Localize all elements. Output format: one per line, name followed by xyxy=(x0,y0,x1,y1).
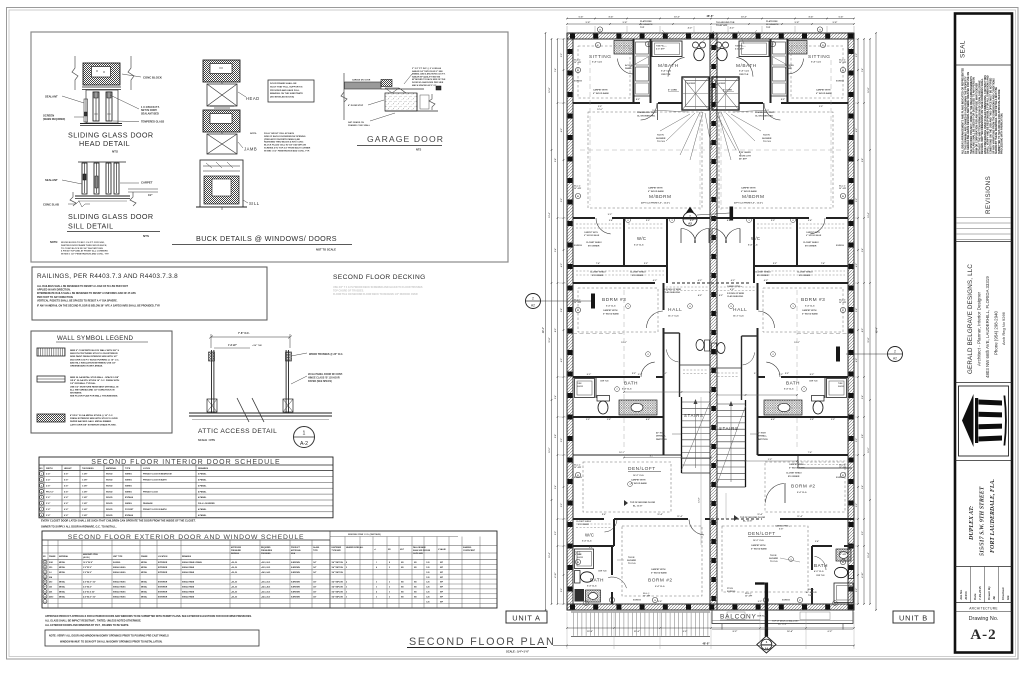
svg-text:TO CLG: TO CLG xyxy=(628,563,636,565)
svg-text:16'-8": 16'-8" xyxy=(868,87,870,92)
svg-text:7'-4": 7'-4" xyxy=(861,68,864,72)
svg-text:5'-2": 5'-2" xyxy=(785,373,789,375)
lav counter left unit mid xyxy=(619,400,657,415)
svg-text:CLOSET SHELV: CLOSET SHELV xyxy=(755,272,771,274)
cased opening dash left xyxy=(642,518,688,520)
svg-text:PRIVACY LOCK IN BATH: PRIVACY LOCK IN BATH xyxy=(143,508,167,511)
svg-text:4'-2": 4'-2" xyxy=(560,263,563,267)
svg-text:PAPER BACKED GALV. METAL RIBBE: PAPER BACKED GALV. METAL RIBBED xyxy=(70,420,112,423)
svg-text:SWING: SWING xyxy=(125,491,132,493)
bath walls left unit xyxy=(573,376,640,378)
svg-text:1/4": 1/4" xyxy=(313,591,316,594)
svg-text:3'-0": 3'-0" xyxy=(598,106,602,108)
svg-text:BY OWNER: BY OWNER xyxy=(805,245,817,247)
svg-text:W/C: W/C xyxy=(585,533,594,538)
svg-text:SECOND FLOOR INTERIOR DOOR SCH: SECOND FLOOR INTERIOR DOOR SCHEDULE xyxy=(91,459,280,466)
sliding glass door head detail xyxy=(72,56,78,90)
svg-text:260: 260 xyxy=(49,587,52,589)
svg-text:SINGLE HUNG: SINGLE HUNG xyxy=(113,592,126,594)
svg-text:WOOD: WOOD xyxy=(106,515,113,517)
svg-text:8'-2": 8'-2" xyxy=(587,374,591,376)
svg-text:SCREEN: SCREEN xyxy=(43,114,54,118)
carpet outline bdrm2 left xyxy=(622,526,702,596)
bdrm2 wall right unit xyxy=(758,454,849,456)
svg-text:SITTING: SITTING xyxy=(589,54,611,60)
svg-text:3'-0": 3'-0" xyxy=(819,106,823,108)
svg-text:SHOW: SHOW xyxy=(577,557,583,559)
svg-text:REQUIRED: REQUIRED xyxy=(261,547,271,549)
wall symbol legend box xyxy=(31,331,172,433)
svg-text:1/2" DRYWALL TYPICAL.: 1/2" DRYWALL TYPICAL. xyxy=(70,382,96,385)
svg-text:5'-4": 5'-4" xyxy=(554,248,557,252)
svg-text:6" WOOD BASE: 6" WOOD BASE xyxy=(806,234,822,237)
revision rule lines xyxy=(957,217,1011,219)
svg-text:8'-2": 8'-2" xyxy=(636,99,640,101)
buck detail head section xyxy=(203,60,240,82)
carpet outline den/loft left xyxy=(583,462,671,512)
svg-text:M/BDRM: M/BDRM xyxy=(649,194,671,200)
svg-text:1/4" TAPCON: 1/4" TAPCON xyxy=(332,595,344,598)
svg-text:PRIVACY LOCK: PRIVACY LOCK xyxy=(143,490,158,493)
svg-text:4'-8" AFF: 4'-8" AFF xyxy=(656,48,665,51)
svg-text:4 PANEL: 4 PANEL xyxy=(198,514,207,517)
svg-text:SHOWERS.: SHOWERS. xyxy=(70,393,82,395)
svg-text:COEFFICIENT: COEFFICIENT xyxy=(463,550,476,552)
closet shelf dashes xyxy=(576,223,622,225)
svg-text:12'-6": 12'-6" xyxy=(597,109,603,111)
svg-text:SHOWER: SHOWER xyxy=(687,83,696,85)
svg-text:FASTENED THRU BUCKS 4 INTO CON: FASTENED THRU BUCKS 4 INTO CONC xyxy=(264,141,304,144)
svg-text:1'-8 1/2": 1'-8 1/2" xyxy=(228,345,237,347)
svg-text:+50,-50: +50,-50 xyxy=(231,592,237,594)
svg-text:1/4" TAPCON: 1/4" TAPCON xyxy=(332,591,344,594)
svg-text:6'-8": 6'-8" xyxy=(64,491,68,493)
svg-text:6" WOOD BASE: 6" WOOD BASE xyxy=(802,312,818,315)
svg-text:W/ MIN 1 1/2" PENETRATION AND: W/ MIN 1 1/2" PENETRATION AND CONC, TYP. xyxy=(264,149,310,152)
svg-text:16'-1" CLG: 16'-1" CLG xyxy=(668,316,679,318)
svg-text:2'-8": 2'-8" xyxy=(607,419,611,421)
tub bottom left xyxy=(575,549,594,569)
svg-text:CER TLE: CER TLE xyxy=(816,575,825,577)
svg-text:3'-2": 3'-2" xyxy=(856,438,858,442)
svg-text:CLOSET SHELV: CLOSET SHELV xyxy=(786,473,802,475)
svg-text:EGRESS: EGRESS xyxy=(574,81,583,83)
svg-text:TUB FILL +: TUB FILL + xyxy=(656,46,667,48)
svg-text:49'-4": 49'-4" xyxy=(876,327,879,333)
svg-text:U VALUE: U VALUE xyxy=(438,548,447,551)
svg-text:REMARKS: REMARKS xyxy=(182,555,192,558)
svg-text:EL. 11'-8": EL. 11'-8" xyxy=(633,506,642,508)
svg-text:9'-4" CLG: 9'-4" CLG xyxy=(811,61,821,64)
svg-text:METAL: METAL xyxy=(59,591,66,594)
svg-text:3'-0": 3'-0" xyxy=(831,419,835,421)
carpet outline m/bdrm right xyxy=(719,112,833,208)
svg-text:NOTE:: NOTE: xyxy=(250,133,257,135)
svg-text:(A.O.B.): (A.O.B.) xyxy=(83,556,90,559)
svg-text:Date: Date xyxy=(973,593,977,600)
svg-text:GL SHOWER DRS.: GL SHOWER DRS. xyxy=(755,115,774,117)
svg-text:36" AFF: 36" AFF xyxy=(839,553,847,556)
svg-text:6: 6 xyxy=(792,220,793,222)
svg-text:SEALANT BED: SEALANT BED xyxy=(141,112,159,115)
svg-text:16'-2" CLG: 16'-2" CLG xyxy=(753,540,764,542)
svg-text:CLAD SHELVING: CLAD SHELVING xyxy=(664,291,681,294)
svg-text:S-BROWN: S-BROWN xyxy=(291,582,300,584)
svg-text:SEAL: SEAL xyxy=(960,40,967,58)
bottom bath walls right xyxy=(811,546,813,570)
svg-text:10'-0": 10'-0" xyxy=(674,17,680,19)
svg-text:9'X9' SHWR: 9'X9' SHWR xyxy=(739,152,751,154)
svg-text:5'-6": 5'-6" xyxy=(602,514,606,516)
svg-text:SECOND FLOOR EXTERIOR DOOR AND: SECOND FLOOR EXTERIOR DOOR AND WINDOW SC… xyxy=(68,534,305,541)
svg-text:S-BROWN: S-BROWN xyxy=(291,587,300,589)
svg-text:INTERMEDIATE RAILS SHALL BE DE: INTERMEDIATE RAILS SHALL BE DESIGNED TO … xyxy=(37,292,136,295)
svg-text:4 PANEL: 4 PANEL xyxy=(198,479,207,482)
svg-text:ATTACHED TO EACH SIDE OF THE: ATTACHED TO EACH SIDE OF THE xyxy=(412,78,446,81)
svg-text:5'-4": 5'-4" xyxy=(861,485,864,489)
svg-text:CARPET WITH: CARPET WITH xyxy=(802,309,817,312)
svg-text:2: 2 xyxy=(346,567,347,569)
svg-text:11'-4": 11'-4" xyxy=(677,515,683,518)
svg-text:HEAD DETAIL: HEAD DETAIL xyxy=(79,139,130,148)
svg-text:(NO BEVELED BUCKS): (NO BEVELED BUCKS) xyxy=(270,97,294,99)
unit a label xyxy=(506,611,547,623)
svg-text:6" WOOD BASE: 6" WOOD BASE xyxy=(593,92,609,95)
svg-text:2'-2": 2'-2" xyxy=(862,531,864,535)
svg-text:3: 3 xyxy=(376,596,377,598)
svg-text:WALL SYMBOL LEGEND: WALL SYMBOL LEGEND xyxy=(57,335,133,342)
svg-text:NOT TO SCALE: NOT TO SCALE xyxy=(316,248,336,252)
svg-text:THICKNESS: THICKNESS xyxy=(82,468,94,470)
svg-text:4'-2": 4'-2" xyxy=(730,27,735,30)
svg-text:A-2: A-2 xyxy=(300,441,308,447)
svg-text:ALL RAILINGS SHALL BE DESIGNED: ALL RAILINGS SHALL BE DESIGNED TO RESIST… xyxy=(37,285,128,288)
svg-text:WOOD: WOOD xyxy=(106,503,113,505)
svg-text:5'-2": 5'-2" xyxy=(773,263,777,265)
svg-text:5'-0": 5'-0" xyxy=(646,220,650,222)
svg-text:USE 1/2" MOISTURE RESISTANT DR: USE 1/2" MOISTURE RESISTANT DRYWALL IN xyxy=(70,385,119,388)
svg-text:(WHEN REQUIRED): (WHEN REQUIRED) xyxy=(43,118,65,121)
svg-text:ALL WET AREAS AND 1/2" DURA RO: ALL WET AREAS AND 1/2" DURA ROCK IN xyxy=(70,388,115,391)
svg-text:EXTERIOR: EXTERIOR xyxy=(158,587,168,589)
svg-text:BY OWNER: BY OWNER xyxy=(592,275,604,277)
svg-text:NEW 8" CONCRETE BLOCK WALL WIT: NEW 8" CONCRETE BLOCK WALL WITH 5/8" S xyxy=(70,349,119,352)
svg-text:1/4" TAPCON: 1/4" TAPCON xyxy=(332,571,344,574)
window tags top/bottom walls xyxy=(597,27,602,32)
svg-text:REVISIONS: REVISIONS xyxy=(985,176,992,214)
svg-text:HALL: HALL xyxy=(668,307,682,313)
second floor interior door schedule table xyxy=(39,457,333,518)
svg-text:40" ABOVE: 40" ABOVE xyxy=(806,591,817,594)
svg-text:PROVIDED: PROVIDED xyxy=(261,553,271,555)
svg-text:DOOR W/ 4 ANCHORS PER SIDE: DOOR W/ 4 ANCHORS PER SIDE xyxy=(412,81,444,84)
garage door boxed note xyxy=(268,80,314,102)
svg-text:METAL: METAL xyxy=(59,586,66,589)
svg-text:PRESSURE: PRESSURE xyxy=(231,550,242,552)
svg-text:SINGLE HUNG: SINGLE HUNG xyxy=(113,596,126,598)
svg-text:2'-8": 2'-8" xyxy=(810,419,814,421)
svg-text:Drawing No.: Drawing No. xyxy=(969,616,999,622)
buck detail jamb section xyxy=(203,110,240,132)
svg-text:9'-8": 9'-8" xyxy=(555,158,557,162)
svg-text:16'-1": 16'-1" xyxy=(619,452,625,454)
stair zone vertical dim chains xyxy=(700,397,702,545)
svg-text:STAIRS: STAIRS xyxy=(719,426,739,431)
svg-text:1 3/8": 1 3/8" xyxy=(82,509,87,511)
svg-text:SIDE PAINT FINISH INTERIOR SID: SIDE PAINT FINISH INTERIOR SIDE WITH 1/2… xyxy=(70,355,118,358)
svg-text:1/4": 1/4" xyxy=(313,581,316,584)
svg-text:8: 8 xyxy=(689,306,690,308)
svg-text:10'-0": 10'-0" xyxy=(549,447,551,452)
svg-text:9'-4" CLG: 9'-4" CLG xyxy=(805,305,815,308)
svg-text:TO CONC BLOCK W/ 1/4" DIA TAPC: TO CONC BLOCK W/ 1/4" DIA TAPCONS xyxy=(61,247,103,250)
svg-text:WINDOW MANUF. TO SIGN-OFF ON A: WINDOW MANUF. TO SIGN-OFF ON ALL MASONRY… xyxy=(60,641,163,644)
plan center party wall xyxy=(710,33,717,610)
svg-text:M/BATH: M/BATH xyxy=(658,63,679,69)
svg-text:8'-2": 8'-2" xyxy=(683,631,688,633)
wall columns center xyxy=(711,45,716,50)
svg-text:SPACING ZONE 1 V.O. (SW/7SHW): SPACING ZONE 1 V.O. (SW/7SHW) xyxy=(348,533,381,536)
svg-text:PR 2'-0": PR 2'-0" xyxy=(46,491,54,493)
svg-text:3: 3 xyxy=(376,582,377,584)
svg-text:UNIT B: UNIT B xyxy=(899,614,928,623)
svg-text:HEAD: HEAD xyxy=(246,96,260,101)
svg-text:9'-4" CLG: 9'-4" CLG xyxy=(606,305,616,308)
svg-text:5'-2": 5'-2" xyxy=(644,263,648,265)
svg-text:JAMB: JAMB xyxy=(244,147,257,152)
svg-text:LOCATION: LOCATION xyxy=(158,555,168,558)
svg-text:1 3/8": 1 3/8" xyxy=(82,515,87,517)
svg-text:W/ MIN 1 1/2" PENETRATION AND: W/ MIN 1 1/2" PENETRATION AND CONC, TYP. xyxy=(61,253,109,256)
hall wall right unit xyxy=(757,283,759,310)
svg-text:5 ROWS OF WIRE: 5 ROWS OF WIRE xyxy=(727,293,745,295)
svg-text:SINGLE PANE: SINGLE PANE xyxy=(182,595,195,598)
svg-text:METAL: METAL xyxy=(59,561,66,564)
svg-text:PRIVACY LOCK IN BATH: PRIVACY LOCK IN BATH xyxy=(143,479,167,482)
svg-text:PARTITION: PARTITION xyxy=(757,438,768,441)
svg-text:5'-8": 5'-8" xyxy=(586,22,591,24)
svg-text:8'-0": 8'-0" xyxy=(555,328,557,332)
svg-text:3'-2": 3'-2" xyxy=(856,53,858,57)
svg-text:3'-2": 3'-2" xyxy=(779,374,783,376)
svg-text:3: 3 xyxy=(389,592,390,594)
svg-text:EL. 11'-4": EL. 11'-4" xyxy=(778,623,787,626)
svg-text:CARPET WITH: CARPET WITH xyxy=(806,231,820,234)
svg-text:BY OWNER: BY OWNER xyxy=(757,275,769,277)
lav bottom right xyxy=(836,549,851,561)
svg-text:OR 6" 20 GA MTL STUDS 16" O.C.: OR 6" 20 GA MTL STUDS 16" O.C. FINISH WI… xyxy=(70,379,120,382)
svg-text:CER TLE: CER TLE xyxy=(661,74,671,76)
svg-text:31'-6": 31'-6" xyxy=(634,631,640,633)
svg-text:4'-6"X3'-6 1/2": 4'-6"X3'-6 1/2" xyxy=(83,591,95,594)
svg-text:BYPASS: BYPASS xyxy=(125,514,134,517)
svg-text:BY OWNER: BY OWNER xyxy=(632,275,644,277)
svg-text:TO 48" AFF: TO 48" AFF xyxy=(716,24,728,27)
svg-text:RATED (SEE SPECS): RATED (SEE SPECS) xyxy=(308,380,332,383)
svg-text:METAL: METAL xyxy=(59,595,66,598)
svg-text:METAL: METAL xyxy=(141,581,148,584)
svg-text:ACCESS: ACCESS xyxy=(625,64,634,67)
svg-text:8'-4": 8'-4" xyxy=(609,16,614,19)
toilet left unit mid xyxy=(597,396,610,402)
svg-text:EVERY CLOSET DOOR LATCH SHALL: EVERY CLOSET DOOR LATCH SHALL BE SUCH TH… xyxy=(41,520,196,523)
svg-text:10'-4": 10'-4" xyxy=(548,552,551,557)
bath walls right unit xyxy=(781,376,848,378)
svg-text:3'-1": 3'-1" xyxy=(754,373,758,375)
svg-text:DEN/LOFT: DEN/LOFT xyxy=(748,531,776,537)
tub bottom right xyxy=(834,583,853,603)
svg-text:BYPASS: BYPASS xyxy=(125,496,134,499)
svg-text:8: 8 xyxy=(730,306,731,308)
svg-text:1.20: 1.20 xyxy=(426,567,430,569)
closet cells right unit xyxy=(773,42,786,54)
svg-text:CARPET: CARPET xyxy=(141,181,153,185)
sitting door arc right xyxy=(788,59,803,74)
toilet right unit mid xyxy=(812,396,825,402)
svg-text:2X0: 2X0 xyxy=(49,567,52,569)
svg-text:TYPE: TYPE xyxy=(313,550,318,552)
svg-text:SINGLE PANE: SINGLE PANE xyxy=(182,571,195,574)
svg-text:4'-6"X4'-0" 1/2": 4'-6"X4'-0" 1/2" xyxy=(83,595,96,598)
svg-text:4 PANEL: 4 PANEL xyxy=(198,496,207,499)
left dimension chains xyxy=(545,33,547,610)
svg-text:5'-4": 5'-4" xyxy=(861,248,864,252)
svg-text:15'-8": 15'-8" xyxy=(587,631,593,633)
attic detail callout circle 1/A-2 xyxy=(294,427,315,448)
svg-text:2: 2 xyxy=(894,350,896,354)
svg-text:5'-8": 5'-8" xyxy=(623,22,628,24)
svg-text:4'-6": 4'-6" xyxy=(771,418,775,421)
plan exterior wall left xyxy=(567,33,573,610)
svg-text:CER TLE: CER TLE xyxy=(600,381,609,383)
svg-text:CARPET WITH: CARPET WITH xyxy=(631,479,646,482)
wall sitting-bath divider right unit xyxy=(787,39,789,103)
mbath door arcs at center xyxy=(668,57,685,76)
svg-text:36" AFF: 36" AFF xyxy=(643,595,651,598)
svg-text:TO CLG: TO CLG xyxy=(763,141,771,143)
svg-text:4'-2": 4'-2" xyxy=(764,279,768,282)
svg-text:TLE IN: TLE IN xyxy=(763,135,770,137)
svg-text:EXTERIOR: EXTERIOR xyxy=(158,572,168,574)
svg-text:WOOD: WOOD xyxy=(106,480,113,482)
svg-text:DRYWALL: DRYWALL xyxy=(757,435,768,438)
svg-text:EGRESS: EGRESS xyxy=(574,245,583,247)
svg-text:1/4" TAPCON: 1/4" TAPCON xyxy=(332,561,344,564)
svg-text:3'-4": 3'-4" xyxy=(815,540,819,543)
svg-text:4'-2": 4'-2" xyxy=(698,294,702,297)
svg-text:6" WOOD BASE: 6" WOOD BASE xyxy=(631,482,647,485)
svg-text:9'-4" CLG: 9'-4" CLG xyxy=(592,61,602,64)
svg-text:WIDTH: WIDTH xyxy=(46,468,53,470)
svg-text:7'-4": 7'-4" xyxy=(808,451,812,454)
svg-text:HEIGHT: HEIGHT xyxy=(64,468,72,470)
carpet outline m/bdrm left xyxy=(588,112,702,208)
svg-text:CARPET WITH: CARPET WITH xyxy=(789,463,804,466)
svg-text:3'-2": 3'-2" xyxy=(589,547,593,549)
svg-text:SEALANT: SEALANT xyxy=(45,95,58,99)
tub left unit xyxy=(652,41,682,57)
svg-text:4 PANEL: 4 PANEL xyxy=(198,473,207,476)
svg-text:36" AFF: 36" AFF xyxy=(574,187,582,190)
svg-text:2'-8": 2'-8" xyxy=(862,434,864,438)
svg-text:6" WOOD BASE: 6" WOOD BASE xyxy=(789,466,805,469)
shower right unit xyxy=(712,77,739,110)
svg-text:4'-2": 4'-2" xyxy=(688,27,693,30)
svg-text:5'-8": 5'-8" xyxy=(795,22,800,24)
svg-text:+52.0,-50.5: +52.0,-50.5 xyxy=(261,592,270,594)
svg-text:CASED OPNG +: CASED OPNG + xyxy=(775,525,791,528)
svg-text:NAILER SP QUALITY MAY BE: NAILER SP QUALITY MAY BE xyxy=(412,75,441,78)
svg-text:7: 7 xyxy=(803,389,804,391)
svg-text:+52.5,-52.5: +52.5,-52.5 xyxy=(261,567,270,569)
svg-text:FLOOR TILE ON SECOND FLOOR DEC: FLOOR TILE ON SECOND FLOOR DECK TO RECEI… xyxy=(333,293,418,296)
svg-text:48'-8": 48'-8" xyxy=(706,14,714,18)
svg-text:EGRESS: EGRESS xyxy=(574,477,583,479)
svg-text:7'-8" O.C.: 7'-8" O.C. xyxy=(238,331,250,335)
svg-text:SHOWER: SHOWER xyxy=(762,138,772,140)
svg-text:2'-8": 2'-8" xyxy=(555,434,557,438)
carpet outline bdrm3 right xyxy=(763,288,843,332)
svg-text:1.20: 1.20 xyxy=(426,562,430,564)
svg-text:(PRECAST/CONCRETE PANELS) BE: (PRECAST/CONCRETE PANELS) BE xyxy=(264,138,300,141)
svg-text:Drawn By: Drawn By xyxy=(987,586,991,600)
svg-text:8'-7": 8'-7" xyxy=(650,455,654,457)
svg-text:RAILINGS, PER R4403.7.3 AND R4: RAILINGS, PER R4403.7.3 AND R4403.7.3.8 xyxy=(37,273,178,280)
svg-text:+54.5,-54.5: +54.5,-54.5 xyxy=(261,571,270,574)
svg-text:EMBED, AND 4 ANCHORS 4 2X P.T.: EMBED, AND 4 ANCHORS 4 2X P.T. xyxy=(412,73,446,76)
svg-text:FINISH EXTERIOR SIDE WITH STUC: FINISH EXTERIOR SIDE WITH STUCCO OVER xyxy=(70,418,118,420)
svg-text:4'-2": 4'-2" xyxy=(719,294,723,297)
svg-text:515/517 S.W. 9TH STREET: 515/517 S.W. 9TH STREET xyxy=(980,486,986,556)
svg-text:CER TLE: CER TLE xyxy=(757,616,767,618)
legend swatch metal stud xyxy=(37,376,65,382)
svg-text:3'-8": 3'-8" xyxy=(856,308,858,312)
svg-text:5'-0": 5'-0" xyxy=(771,220,775,222)
svg-text:49'-4": 49'-4" xyxy=(542,327,545,333)
svg-text:FRAME: FRAME xyxy=(49,555,56,558)
svg-text:+3/4" THK: +3/4" THK xyxy=(252,344,262,347)
svg-text:SINGLE PANE: SINGLE PANE xyxy=(182,566,195,569)
svg-text:8'-2": 8'-2" xyxy=(733,631,738,633)
svg-text:CONC SLAB: CONC SLAB xyxy=(43,203,59,207)
svg-text:ACCESS: ACCESS xyxy=(785,64,794,67)
svg-text:6'-8": 6'-8" xyxy=(64,515,68,517)
svg-text:W/ GRANITE: W/ GRANITE xyxy=(766,23,779,26)
svg-text:7'-4": 7'-4" xyxy=(554,68,557,72)
svg-text:JF204: JF204 xyxy=(964,591,968,600)
svg-text:IF ANY HANDRAIL ON THE SECOND: IF ANY HANDRAIL ON THE SECOND FLOOR IS B… xyxy=(37,305,160,308)
svg-text:CER TLE: CER TLE xyxy=(739,74,749,76)
plan exterior wall right xyxy=(848,33,854,610)
hall nook room right unit xyxy=(741,336,743,400)
svg-text:+50,-50: +50,-50 xyxy=(231,596,237,598)
svg-text:7'-4": 7'-4" xyxy=(821,262,825,265)
svg-text:BDRM #3: BDRM #3 xyxy=(602,297,626,303)
svg-text:CARPET WITH: CARPET WITH xyxy=(651,568,666,571)
buck detail sill section xyxy=(200,160,243,207)
access panel leaders xyxy=(630,57,648,67)
svg-text:6'-8": 6'-8" xyxy=(64,485,68,487)
svg-text:6: 6 xyxy=(627,220,628,222)
svg-text:3'-1": 3'-1" xyxy=(663,373,667,375)
svg-text:GREENBOARD IN WET AREAS.: GREENBOARD IN WET AREAS. xyxy=(70,365,103,368)
svg-text:4 PANEL: 4 PANEL xyxy=(198,490,207,493)
shower leader fans xyxy=(652,110,688,112)
sliding glass door sill detail xyxy=(78,161,126,163)
section callout bottom diamond xyxy=(757,636,776,653)
svg-text:UNIT TYPE: UNIT TYPE xyxy=(113,556,123,558)
deck hatch left xyxy=(571,611,710,613)
